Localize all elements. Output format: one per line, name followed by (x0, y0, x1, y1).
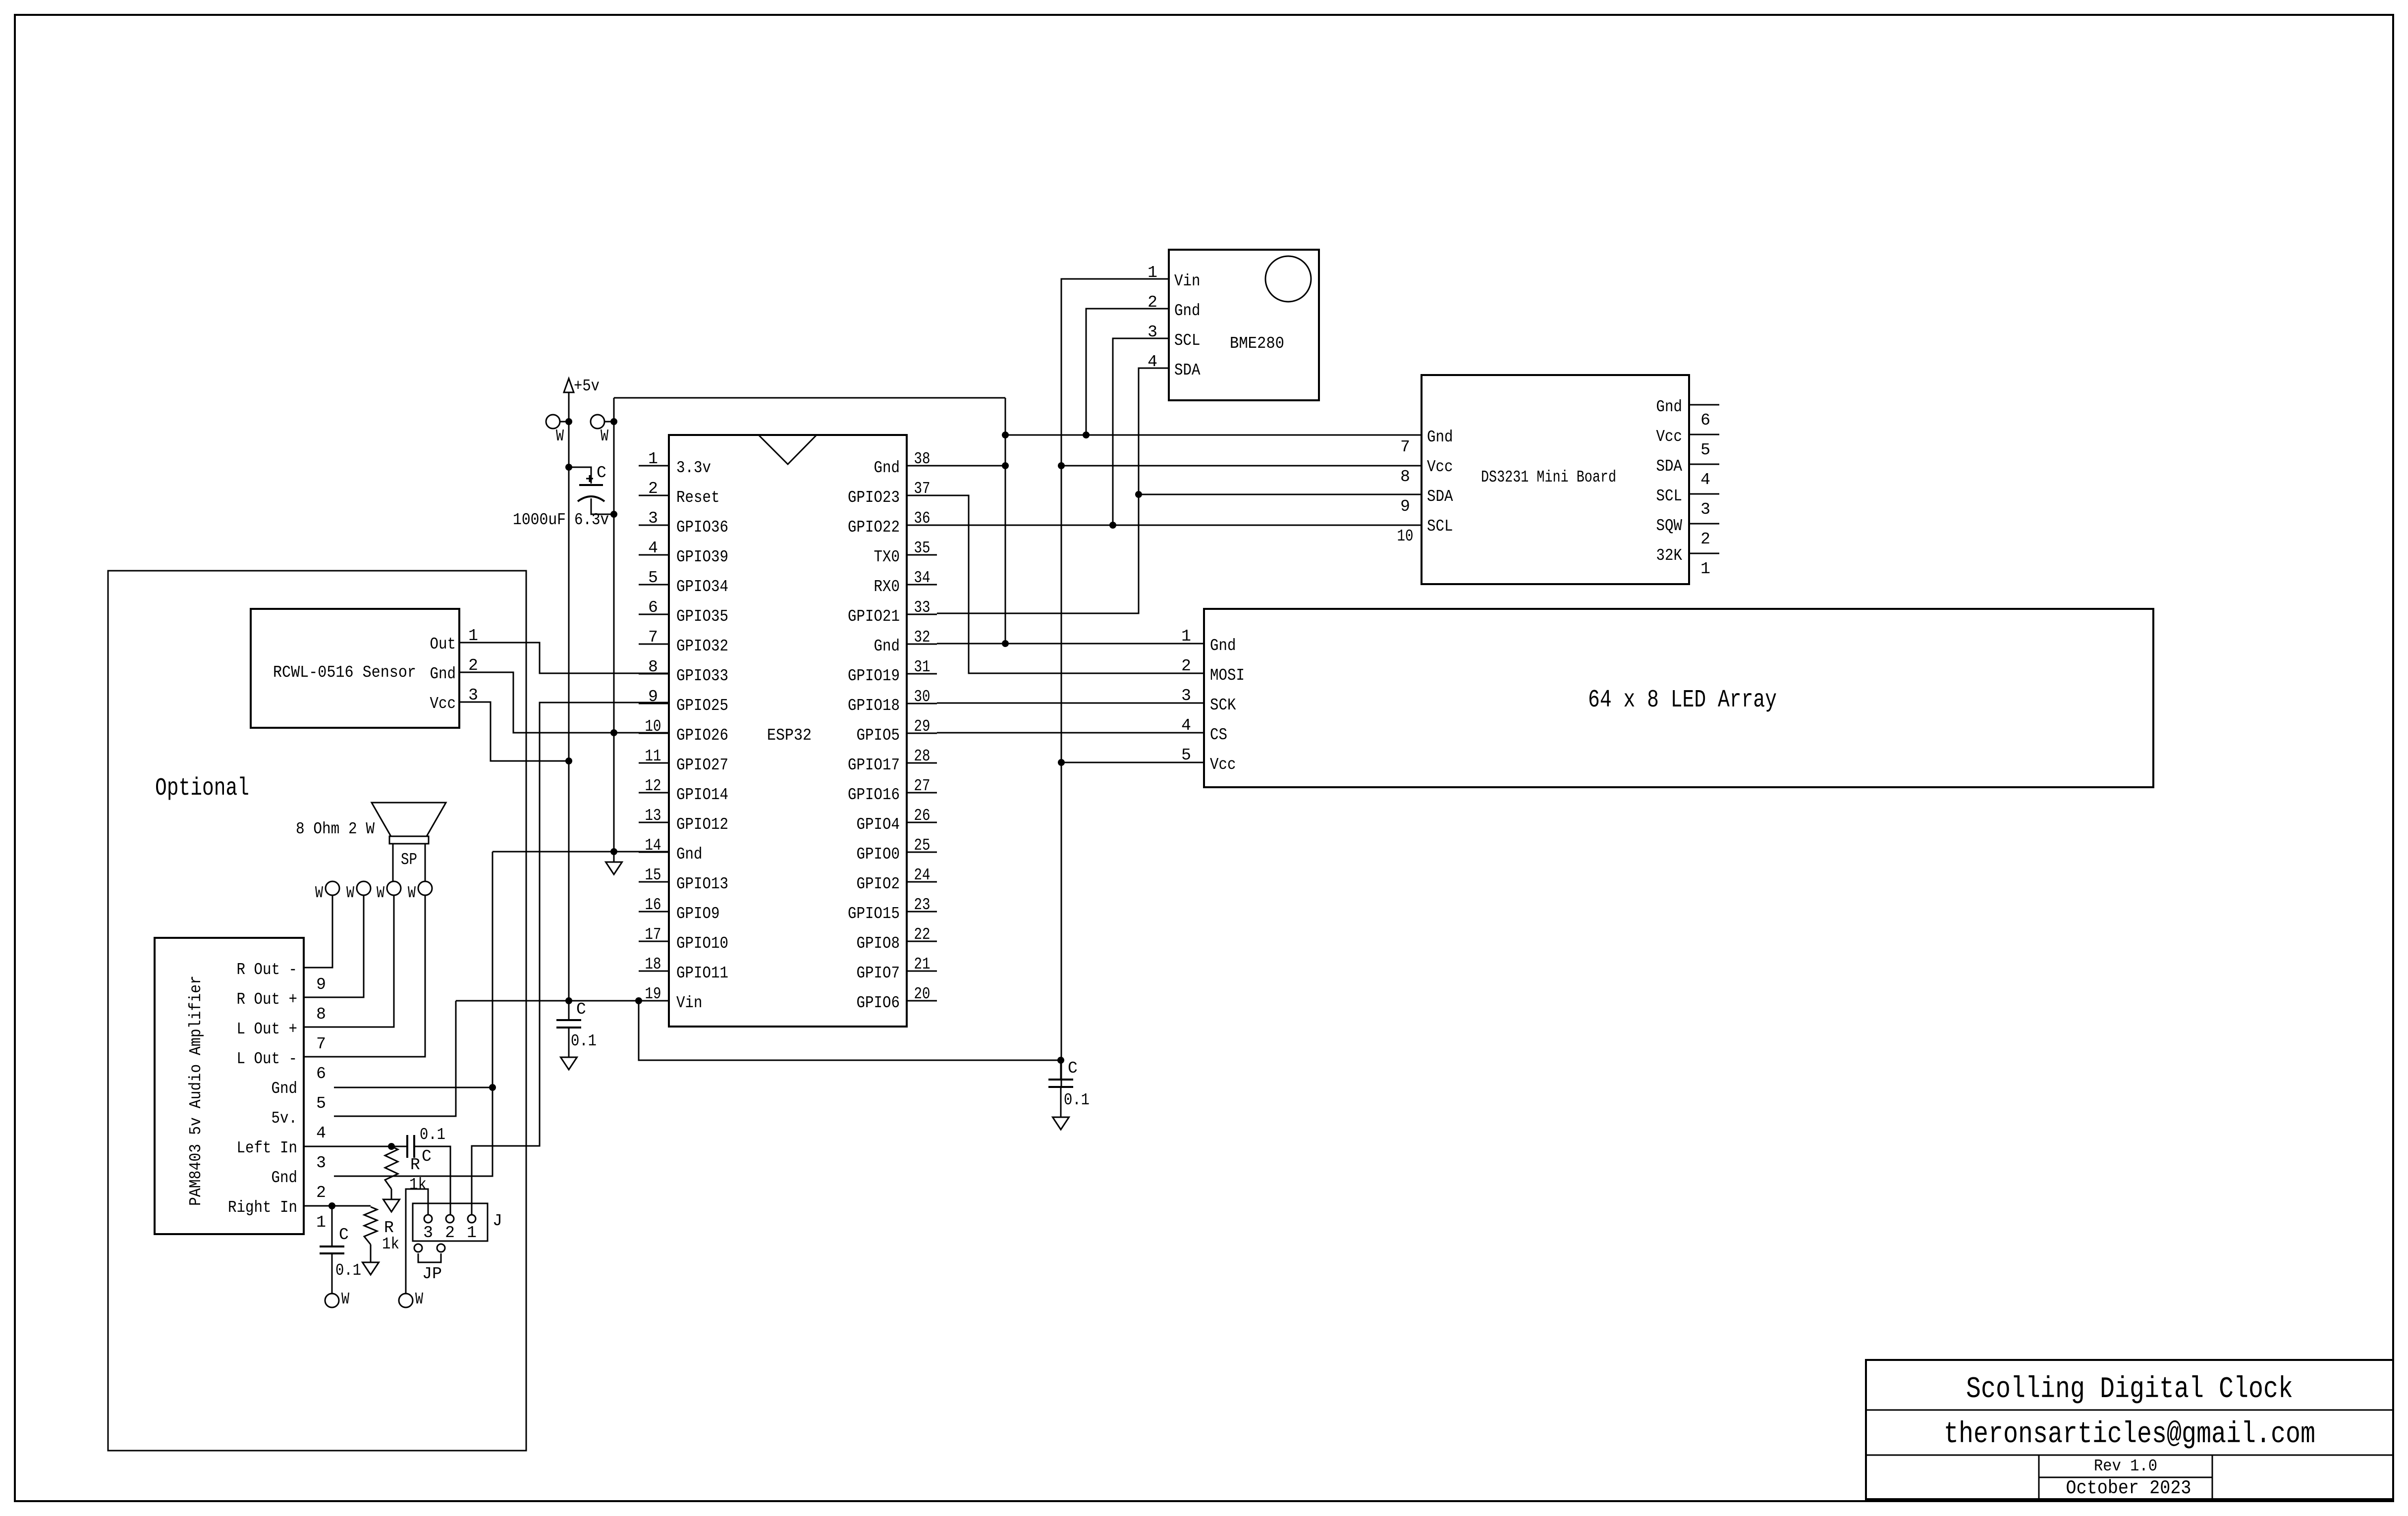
wire BME280 SCL down (1113, 338, 1169, 524)
svg-text:Left In: Left In (237, 1139, 298, 1157)
svg-text:5: 5 (1181, 746, 1191, 764)
svg-text:16: 16 (645, 896, 661, 914)
ESP32 pin 7 stub (639, 644, 669, 645)
svg-text:GPIO33: GPIO33 (676, 667, 728, 685)
ESP32 pin 1 stub (639, 465, 669, 467)
wire RCWL Vcc to +5v rail (459, 702, 569, 761)
wire Gnd rail vertical (613, 398, 615, 852)
svg-text:36: 36 (914, 509, 930, 528)
ESP32 pin 37 stub (907, 495, 937, 496)
wire Gnd branch down-left (334, 852, 493, 1176)
svg-text:5: 5 (648, 569, 658, 587)
wire GPIO25 to J pin1 (472, 703, 669, 1215)
svg-text:SCL: SCL (1174, 331, 1201, 350)
ESP32 pin 11 stub (639, 762, 669, 764)
svg-text:8 Ohm 2 W: 8 Ohm 2 W (296, 820, 375, 838)
wire ESP32 pin14 Gnd (493, 851, 669, 853)
svg-text:SP: SP (401, 851, 417, 869)
wire RCWL Gnd to Gnd rail and GPIO26 (459, 672, 669, 733)
svg-text:3: 3 (648, 509, 658, 528)
svg-text:27: 27 (914, 777, 930, 795)
junction cap-Gnd (610, 511, 617, 518)
svg-text:3: 3 (423, 1224, 433, 1242)
svg-text:GPIO0: GPIO0 (857, 845, 900, 864)
BME280 sensor module body (1169, 250, 1319, 400)
svg-text:32K: 32K (1656, 546, 1683, 565)
svg-text:GPIO9: GPIO9 (676, 905, 720, 923)
ESP32 pin 33 stub (907, 614, 937, 615)
svg-text:8: 8 (1400, 468, 1410, 486)
svg-text:9: 9 (316, 975, 326, 994)
junction BME280 Gnd joins (1083, 432, 1090, 438)
svg-text:Gnd: Gnd (1427, 428, 1453, 446)
svg-text:10: 10 (1397, 527, 1414, 545)
connector W2 (Gnd wire pad) (591, 415, 604, 429)
svg-text:W: W (415, 1290, 423, 1308)
ESP32 notch (759, 435, 817, 464)
junction Gnd rail end at LED Gnd (1002, 640, 1009, 647)
capacitor C 0.1 (Vin decoupling) (556, 1020, 581, 1028)
wire GPIO18 to LED SCK (937, 703, 1204, 704)
connector J pin 2 circle (446, 1215, 454, 1223)
wire speaker left terminal (392, 844, 394, 881)
wire Right In cap to W7 (331, 1253, 333, 1294)
wire C1000 bottom to Gnd rail (591, 498, 614, 514)
wire GPIO23 to LED MOSI (937, 495, 1204, 673)
svg-text:RCWL-0516 Sensor: RCWL-0516 Sensor (273, 663, 416, 682)
title block divider line 2 (1866, 1455, 2393, 1456)
junction W1-+5v (565, 418, 572, 425)
svg-text:20: 20 (914, 985, 930, 1003)
ESP32 pin 31 stub (907, 673, 937, 675)
svg-text:4: 4 (1181, 716, 1191, 735)
svg-text:Gnd: Gnd (1174, 302, 1201, 320)
svg-text:6.3v: 6.3v (574, 511, 609, 529)
svg-text:Gnd: Gnd (272, 1080, 298, 1098)
svg-text:GPIO35: GPIO35 (676, 607, 728, 626)
svg-text:R: R (384, 1219, 394, 1237)
ESP32 pin 14 stub (639, 852, 669, 853)
svg-text:W: W (408, 884, 416, 902)
junction Gnd rail at pin14 (610, 848, 617, 855)
title block vertical divider right (2212, 1455, 2213, 1499)
svg-text:PAM8403 5v Audio Amplifier: PAM8403 5v Audio Amplifier (187, 975, 205, 1206)
svg-text:Vin: Vin (1174, 272, 1201, 290)
svg-text:Scolling Digital Clock: Scolling Digital Clock (1966, 1373, 2293, 1407)
ESP32 pin 10 stub (639, 733, 669, 734)
svg-text:35: 35 (914, 539, 930, 557)
svg-text:Gnd: Gnd (430, 665, 456, 683)
BME280 sensor circle (1265, 256, 1311, 302)
ground symbol under Vin cap (561, 1057, 577, 1070)
junction Vin branch to cap (1057, 1057, 1064, 1064)
svg-text:2: 2 (316, 1184, 326, 1202)
svg-text:GPIO7: GPIO7 (857, 964, 900, 982)
svg-text:GPIO2: GPIO2 (857, 875, 900, 893)
title block outer box (1866, 1360, 2393, 1499)
ESP32 pin 3 stub (639, 525, 669, 526)
wire PAM pin5 Gnd (334, 1087, 493, 1088)
svg-text:11: 11 (645, 747, 661, 765)
connector J pin 1 circle (468, 1215, 476, 1223)
svg-text:SDA: SDA (1427, 487, 1453, 506)
junction +5v rail at Vin (565, 997, 572, 1004)
svg-text:GPIO8: GPIO8 (857, 934, 900, 953)
connector W7 (Right In pad) (325, 1294, 339, 1307)
svg-text:Gnd: Gnd (1210, 637, 1236, 655)
ESP32 pin 23 stub (907, 911, 937, 913)
svg-text:GPIO32: GPIO32 (676, 637, 728, 655)
wire SDA to DS3231 pin9 (1139, 494, 1422, 495)
wire +5v to LED Vcc (1061, 762, 1204, 763)
svg-text:2: 2 (1700, 530, 1710, 548)
svg-text:R Out +: R Out + (237, 990, 298, 1009)
junction +5v cap tap (565, 464, 572, 471)
connector J body (413, 1203, 488, 1241)
connector W4 (R Out + pad) (357, 881, 371, 895)
connector W1 (+5v wire pad) (546, 415, 560, 429)
svg-text:+5v: +5v (574, 377, 600, 395)
svg-text:C: C (1068, 1059, 1078, 1078)
svg-text:C: C (422, 1147, 432, 1166)
svg-text:5: 5 (1700, 441, 1710, 459)
wire W1 stub (560, 421, 569, 423)
svg-text:GPIO10: GPIO10 (676, 934, 728, 953)
wire PAM pin9 R Out - to W3 (304, 895, 332, 968)
svg-text:0.1: 0.1 (335, 1261, 361, 1280)
svg-text:Vcc: Vcc (1210, 756, 1236, 774)
svg-text:24: 24 (914, 866, 930, 884)
svg-text:Out: Out (430, 635, 456, 653)
ESP32 pin 21 stub (907, 971, 937, 972)
svg-text:13: 13 (645, 807, 661, 825)
svg-text:October 2023: October 2023 (2066, 1477, 2191, 1499)
ESP32 pin 28 stub (907, 762, 937, 764)
ESP32 pin 16 stub (639, 911, 669, 913)
svg-text:GPIO16: GPIO16 (848, 786, 900, 804)
resistor R 1k (Left In load) (385, 1146, 398, 1189)
svg-text:37: 37 (914, 480, 930, 498)
ESP32 pin 27 stub (907, 792, 937, 794)
svg-text:GPIO23: GPIO23 (848, 488, 900, 507)
svg-text:5v.: 5v. (272, 1109, 298, 1128)
wire PAM pin3 Left In (304, 1146, 407, 1147)
ESP32 pin 4 stub (639, 554, 669, 556)
svg-text:R Out -: R Out - (237, 961, 298, 979)
ESP32 pin 24 stub (907, 881, 937, 883)
svg-text:GPIO18: GPIO18 (848, 697, 900, 715)
wire PAM pin7 L Out + to W5 (304, 895, 394, 1027)
wire Gnd bus top horizontal (614, 397, 1005, 399)
ESP32 pin 5 stub (639, 584, 669, 586)
svg-text:4: 4 (1700, 471, 1710, 489)
wire J pin3 to W8 (406, 1189, 428, 1294)
svg-text:GPIO34: GPIO34 (676, 578, 728, 596)
wire BME280 SDA down to GPIO21 (937, 368, 1169, 613)
wire Gnd bus to DS3231 Gnd pin7 (1005, 434, 1422, 436)
connector W8 (J3 pad) (399, 1294, 413, 1307)
svg-text:1: 1 (1181, 627, 1191, 646)
svg-text:C: C (339, 1226, 349, 1244)
wire W2 stub (604, 421, 613, 423)
junction pin38 Gnd (1002, 462, 1009, 469)
svg-text:GPIO39: GPIO39 (676, 548, 728, 566)
ESP32 pin 34 stub (907, 584, 937, 586)
svg-text:SCL: SCL (1427, 517, 1453, 536)
svg-text:22: 22 (914, 925, 930, 944)
capacitor C 0.1 (LED Vcc decoupling) (1048, 1080, 1073, 1087)
svg-text:7: 7 (648, 628, 658, 647)
svg-text:28: 28 (914, 747, 930, 765)
svg-text:1000uF: 1000uF (513, 511, 566, 529)
wire Right In cap top stub (331, 1206, 333, 1246)
svg-text:1: 1 (467, 1224, 477, 1242)
svg-text:64 x 8 LED Array: 64 x 8 LED Array (1588, 686, 1777, 714)
wire PAM pin8 R Out + to W4 (304, 895, 364, 997)
resistor R 1k (Right In load) (364, 1207, 377, 1245)
svg-text:15: 15 (645, 866, 661, 884)
svg-text:MOSI: MOSI (1210, 666, 1245, 685)
jumper JP pin circles (414, 1244, 422, 1252)
wire Gnd bus right vertical (1005, 398, 1006, 644)
wire Vin line (456, 1000, 669, 1002)
ESP32 pin 38 stub (907, 465, 937, 467)
svg-text:DS3231 Mini Board: DS3231 Mini Board (1481, 468, 1616, 487)
wire 5v riser to PAM pin4 (334, 1001, 456, 1116)
svg-text:GPIO21: GPIO21 (848, 607, 900, 626)
svg-text:Vcc: Vcc (1427, 458, 1453, 476)
svg-text:31: 31 (914, 658, 930, 676)
svg-text:6: 6 (648, 598, 658, 617)
DS3231 pin 6 stub (1689, 404, 1719, 406)
ESP32 pin 26 stub (907, 822, 937, 823)
svg-text:Gnd: Gnd (272, 1169, 298, 1187)
svg-text:1k: 1k (382, 1235, 399, 1253)
svg-text:Vcc: Vcc (1656, 428, 1683, 446)
svg-text:0.1: 0.1 (1064, 1091, 1090, 1109)
svg-text:GPIO6: GPIO6 (857, 994, 900, 1012)
wire SCL ESP32 GPIO22 to DS3231 pin10 (937, 525, 1422, 526)
title block vertical divider left (2038, 1455, 2040, 1499)
svg-text:W: W (315, 884, 323, 902)
connector W3 (R Out - pad) (326, 881, 339, 895)
ground symbol under Right In resistor (363, 1245, 379, 1275)
svg-text:1: 1 (316, 1213, 326, 1232)
wire Vin branch to LED cap (639, 1001, 1061, 1060)
ESP32 pin 20 stub (907, 1000, 937, 1002)
connector W5 (L Out + pad) (387, 881, 401, 895)
DS3231 pin 3 stub (1689, 493, 1719, 495)
capacitor C 1000uF 6.3v (polarized) (578, 485, 604, 501)
wire Gnd stub to symbol (613, 852, 615, 862)
svg-text:Optional: Optional (155, 774, 249, 803)
svg-text:29: 29 (914, 717, 930, 736)
junction SCL (1109, 522, 1116, 529)
svg-text:34: 34 (914, 569, 930, 587)
svg-text:L Out +: L Out + (237, 1020, 298, 1038)
svg-text:2: 2 (445, 1224, 455, 1242)
ESP32 pin 6 stub (639, 614, 669, 615)
svg-text:1k: 1k (409, 1176, 427, 1194)
ground symbol under Left In resistor (383, 1189, 400, 1212)
svg-text:GPIO27: GPIO27 (676, 756, 728, 774)
svg-text:Gnd: Gnd (874, 637, 900, 655)
svg-text:3: 3 (1181, 687, 1191, 705)
svg-text:18: 18 (645, 955, 661, 974)
svg-text:SCL: SCL (1656, 487, 1683, 505)
ESP32 pin 32 stub (907, 644, 937, 645)
wire ESP32 pin38 to Gnd bus (937, 465, 1005, 467)
svg-text:26: 26 (914, 807, 930, 825)
svg-text:30: 30 (914, 688, 930, 706)
svg-text:1: 1 (1700, 560, 1710, 578)
svg-text:Reset: Reset (676, 488, 720, 507)
svg-text:ESP32: ESP32 (767, 726, 812, 745)
wire PAM pin1 Right In (304, 1205, 371, 1207)
ESP32 pin 35 stub (907, 554, 937, 556)
ESP32 module U1 body (669, 435, 907, 1027)
svg-text:BME280: BME280 (1230, 334, 1284, 353)
svg-text:L Out -: L Out - (237, 1050, 298, 1068)
svg-text:12: 12 (645, 777, 661, 795)
svg-text:2: 2 (648, 480, 658, 498)
wire BME280 Gnd down (1086, 309, 1169, 435)
ESP32 pin 29 stub (907, 733, 937, 734)
64 x 8 LED Array body (1204, 609, 2153, 787)
ESP32 pin 9 stub (639, 703, 669, 704)
ESP32 pin 19 stub (639, 1000, 669, 1002)
junction RCWL Gnd at Gnd rail (610, 729, 617, 736)
wire Vin cap stub (568, 1001, 570, 1020)
svg-text:J: J (493, 1212, 502, 1230)
connector W6 (L Out - pad) (418, 881, 432, 895)
svg-text:GPIO5: GPIO5 (857, 726, 900, 745)
svg-text:25: 25 (914, 836, 930, 855)
svg-text:21: 21 (914, 955, 930, 974)
svg-text:0.1: 0.1 (571, 1032, 597, 1050)
svg-text:C: C (576, 1000, 586, 1019)
svg-text:theronsarticles@gmail.com: theronsarticles@gmail.com (1944, 1418, 2315, 1452)
svg-text:GPIO12: GPIO12 (676, 815, 728, 834)
svg-text:R: R (410, 1156, 420, 1174)
svg-text:SQW: SQW (1656, 517, 1683, 535)
junction Right In cap tap (328, 1202, 335, 1209)
ground symbol under LED Vcc cap (1053, 1117, 1069, 1130)
svg-text:Right In: Right In (228, 1198, 297, 1217)
svg-text:GPIO25: GPIO25 (676, 697, 728, 715)
svg-text:3.3v: 3.3v (676, 459, 711, 477)
svg-text:Vin: Vin (676, 994, 703, 1012)
svg-text:8: 8 (316, 1005, 326, 1024)
wire Vin cap to ground (568, 1028, 570, 1057)
Optional section outline box (108, 571, 526, 1451)
svg-text:7: 7 (1400, 438, 1410, 456)
svg-text:W: W (556, 427, 564, 445)
svg-text:GPIO19: GPIO19 (848, 667, 900, 685)
speaker SP frame (389, 836, 429, 844)
RCWL-0516 Sensor body (251, 609, 459, 728)
svg-text:CS: CS (1210, 726, 1227, 744)
svg-text:9: 9 (1400, 497, 1410, 516)
wire +5v to C1000 top (569, 467, 591, 484)
title block divider line 1 (1866, 1409, 2393, 1411)
svg-text:38: 38 (914, 450, 930, 468)
svg-text:0.1: 0.1 (420, 1126, 445, 1144)
svg-text:6: 6 (316, 1065, 326, 1083)
svg-text:23: 23 (914, 896, 930, 914)
svg-text:Vcc: Vcc (430, 695, 456, 713)
ESP32 pin 15 stub (639, 881, 669, 883)
svg-text:W: W (377, 884, 384, 902)
speaker SP horn (372, 803, 446, 836)
junction Vin branch (635, 997, 642, 1004)
DS3231 pin 4 stub (1689, 464, 1719, 465)
junction LED Vcc riser (1058, 759, 1065, 766)
DS3231 pin 2 stub (1689, 523, 1719, 525)
ESP32 pin 18 stub (639, 971, 669, 972)
ESP32 pin 12 stub (639, 792, 669, 794)
svg-text:TX0: TX0 (874, 548, 900, 566)
svg-text:6: 6 (1700, 411, 1710, 430)
wire +5v rail vertical (568, 392, 570, 1001)
svg-text:SCK: SCK (1210, 696, 1236, 714)
ESP32 pin 30 stub (907, 703, 937, 704)
junction Gnd branch at PAM pin5 Gnd (489, 1084, 496, 1091)
plus sign of polarized cap (586, 475, 593, 482)
junction SDA (1135, 491, 1142, 498)
svg-text:GPIO11: GPIO11 (676, 964, 728, 982)
svg-text:33: 33 (914, 598, 930, 617)
wire speaker right terminal (425, 844, 426, 881)
svg-text:SDA: SDA (1174, 361, 1201, 379)
svg-text:32: 32 (914, 628, 930, 647)
svg-text:W: W (601, 427, 608, 445)
svg-text:GPIO4: GPIO4 (857, 815, 900, 834)
svg-text:Gnd: Gnd (874, 459, 900, 477)
DS3231 pin 1 stub (1689, 553, 1719, 554)
+5v power symbol (564, 379, 574, 392)
svg-text:GPIO14: GPIO14 (676, 786, 728, 804)
wire Left In cap to J pin2 (414, 1146, 450, 1215)
svg-text:GPIO26: GPIO26 (676, 726, 728, 745)
ESP32 pin 2 stub (639, 495, 669, 496)
svg-text:2: 2 (1181, 657, 1191, 675)
wire GPIO5 to LED CS (937, 732, 1204, 734)
ESP32 pin 25 stub (907, 852, 937, 853)
PAM8403 5v Audio Amplifier body (155, 938, 304, 1234)
svg-text:3: 3 (316, 1154, 326, 1172)
wire RCWL Out to GPIO33 (459, 643, 669, 673)
svg-text:GPIO15: GPIO15 (848, 905, 900, 923)
svg-text:17: 17 (645, 925, 661, 944)
junction Left In R tap (388, 1143, 395, 1150)
wire cap stub from junction (1060, 1060, 1062, 1080)
svg-text:GPIO17: GPIO17 (848, 756, 900, 774)
wire +5v net to DS3231 Vcc pin8 (1061, 465, 1422, 467)
wire cap to ground (1060, 1087, 1062, 1117)
svg-text:GPIO36: GPIO36 (676, 518, 728, 537)
junction Vcc tap on BME Vin riser (1058, 462, 1065, 469)
junction RCWL Vcc at +5v rail (565, 758, 572, 764)
junction Gnd bus corner (1002, 432, 1009, 438)
junction W2-Gnd (610, 418, 617, 425)
svg-text:4: 4 (648, 539, 658, 557)
ESP32 pin 13 stub (639, 822, 669, 823)
svg-text:GPIO13: GPIO13 (676, 875, 728, 893)
svg-text:Gnd: Gnd (676, 845, 703, 864)
svg-text:3: 3 (1700, 500, 1710, 519)
svg-text:4: 4 (316, 1124, 326, 1142)
